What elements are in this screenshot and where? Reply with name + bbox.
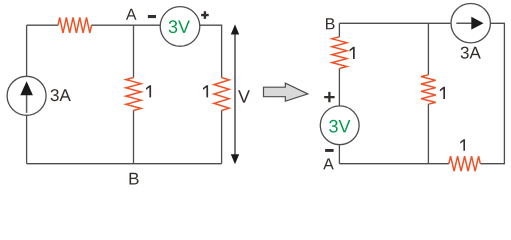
value label 3A (right circuit) bbox=[461, 47, 481, 59]
value label 1 (middle resistor) bbox=[146, 85, 151, 97]
wire: left vertical top bbox=[338, 23, 340, 37]
resistor 1 ohm (bottom horizontal) bbox=[449, 156, 481, 171]
value label 3A bbox=[51, 89, 71, 101]
wire: middle branch vertical bottom bbox=[427, 104, 429, 164]
wire: top-right segment and corner bbox=[200, 25, 222, 77]
voltage arrow V (double headed) bbox=[234, 32, 236, 156]
wire: node A branch vertical bbox=[133, 25, 135, 77]
big grey arrow bbox=[264, 83, 308, 101]
wire: left vertical below source V2 bbox=[338, 145, 340, 164]
current source I1 arrow (up) bbox=[26, 94, 28, 113]
node A (right circuit) bbox=[323, 158, 334, 169]
wire: bottom rail bbox=[27, 163, 222, 165]
voltage source V2 3V (circle) bbox=[320, 106, 359, 145]
resistor 1 ohm (right vertical) bbox=[214, 78, 229, 111]
resistor 1 ohm (middle vertical, right circuit) bbox=[421, 75, 436, 104]
wire: right vertical bottom bbox=[221, 111, 223, 164]
wire: top middle segment bbox=[92, 24, 161, 26]
wire: top-left segment bbox=[27, 24, 58, 26]
wire: left vertical between resistor and source V2 bbox=[338, 69, 340, 106]
node B bbox=[130, 173, 139, 185]
resistor 1 ohm (left vertical, right circuit) bbox=[332, 37, 347, 69]
node B (right circuit) bbox=[326, 18, 335, 29]
resistor (horizontal, top left) bbox=[58, 17, 92, 33]
wire: bottom rail bbox=[339, 163, 448, 165]
plus sign of source V1 bbox=[201, 11, 209, 19]
value label 1 (middle resistor, right circuit) bbox=[440, 87, 445, 99]
wire: left vertical bottom bbox=[26, 115, 28, 163]
plus sign of source V2 bbox=[324, 92, 334, 102]
value label 1 (bottom resistor) bbox=[460, 139, 465, 151]
current source I2 3A (circle) bbox=[451, 4, 490, 43]
wire: middle branch vertical top bbox=[427, 23, 429, 75]
wire: top-right corner, right rail, bottom-right corner bbox=[480, 23, 504, 163]
voltage source V1 3V (circle) bbox=[160, 7, 200, 47]
wire: left vertical top bbox=[26, 25, 28, 76]
resistor 1 ohm (middle vertical) bbox=[126, 78, 141, 111]
label V bbox=[238, 90, 250, 102]
wire: top rail bbox=[339, 22, 450, 24]
minus sign of source V1 bbox=[148, 15, 156, 18]
current source I1 3A (circle) bbox=[7, 76, 46, 115]
current source I2 arrow (right) bbox=[456, 22, 473, 24]
value label 1 (left resistor, right circuit) bbox=[350, 47, 355, 59]
value label 3V (right circuit) bbox=[329, 120, 350, 133]
wire: middle vertical bottom bbox=[133, 111, 135, 164]
node A bbox=[126, 9, 137, 20]
minus sign of source V2 bbox=[325, 149, 334, 152]
value label 1 (right resistor) bbox=[203, 85, 208, 97]
value label 3V bbox=[169, 20, 190, 33]
